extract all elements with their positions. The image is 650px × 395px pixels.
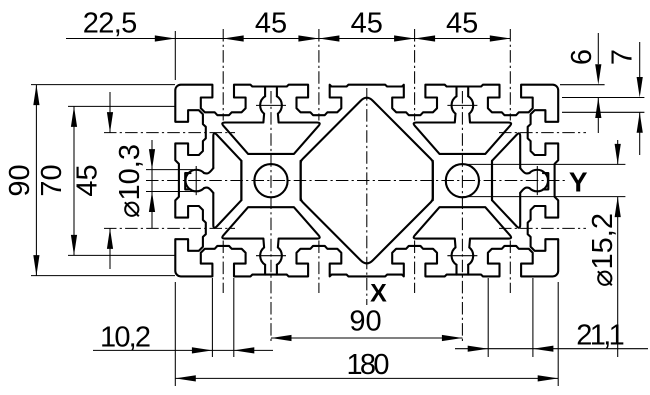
core block side edges, bore 1 [241,161,300,200]
screw channel slit bottom, bore 1 [265,265,277,275]
dimension 90 (bottom) [271,337,462,339]
dimension 22,5 / 45 / 45 / 45 (top) [66,38,510,40]
centerline slot 3 [414,29,416,293]
dimension 45 (left, slot pitch) [109,92,111,133]
screw channel slit top, bore 1 [265,87,277,97]
dimension 10,2 (slot opening) [211,278,213,357]
dimension 6 and 7 (slot lip depths) [560,84,605,86]
left cavity with screw channel, bore 1 [213,133,241,227]
profile outer contour with T-slots [175,85,558,277]
svg-text:10,2: 10,2 [100,321,151,353]
centerline right slot 2 [499,227,586,229]
dimension 90 (left) [31,84,175,86]
svg-text:90: 90 [4,164,36,196]
dimension 70 (left) [68,105,176,107]
centerline slot 2 [318,29,320,293]
centerline left slot 2 [104,227,235,229]
svg-text:7: 7 [607,49,639,65]
screw channel slit bottom, bore 2 [457,265,469,275]
upper cavity with screw channel, bore 2 [414,96,511,154]
centerline bore 2 [461,91,463,343]
svg-text:90: 90 [349,306,381,338]
centerline slot 4 [509,29,511,293]
svg-text:6: 6 [566,49,598,65]
dimension diameter 10,3 [146,169,193,171]
dimension 180 (overall width) [174,282,176,386]
svg-text:Y: Y [569,166,588,197]
svg-text:45: 45 [446,8,478,40]
central diamond cavity [301,98,433,264]
svg-text:⌀10,3: ⌀10,3 [114,144,146,218]
centerline X axis (vertical) [366,88,368,305]
left wall screw channel (diam 10.3) [185,170,204,192]
core block side edges, bore 2 [433,161,492,200]
svg-text:X: X [370,280,387,308]
svg-text:45: 45 [351,8,383,40]
svg-text:21,1: 21,1 [576,320,625,352]
centerline left slot 1 [104,132,235,134]
screw channel cross ticks [256,105,286,255]
centerline right slot 1 [499,132,586,134]
svg-text:180: 180 [347,349,390,381]
centerline Y axis (horizontal) [146,180,568,182]
screw channel cross ticks [447,105,477,255]
svg-text:45: 45 [255,8,287,40]
right cavity with screw channel, bore 2 [492,133,520,227]
svg-text:⌀15,2: ⌀15,2 [587,213,619,287]
right wall screw channel [530,170,549,192]
upper cavity with screw channel, bore 1 [222,96,319,154]
svg-text:70: 70 [36,164,68,196]
lower cavity with screw channel, bore 1 [222,207,319,265]
lower cavity with screw channel, bore 2 [414,207,511,265]
wall channel vertical ticks [196,166,537,195]
svg-text:22,5: 22,5 [83,8,138,40]
core bore 2 (diam 15.2) [446,164,479,197]
dimension diameter 15,2 [462,163,625,165]
core bore 1 (diam 15.2) [254,164,287,197]
centerline slot 1 [222,29,224,293]
centerline bore 1 [270,91,272,343]
dimension 21,1 (slot cavity width) [487,278,489,357]
screw channel slit top, bore 2 [457,87,469,97]
svg-text:45: 45 [72,164,104,196]
